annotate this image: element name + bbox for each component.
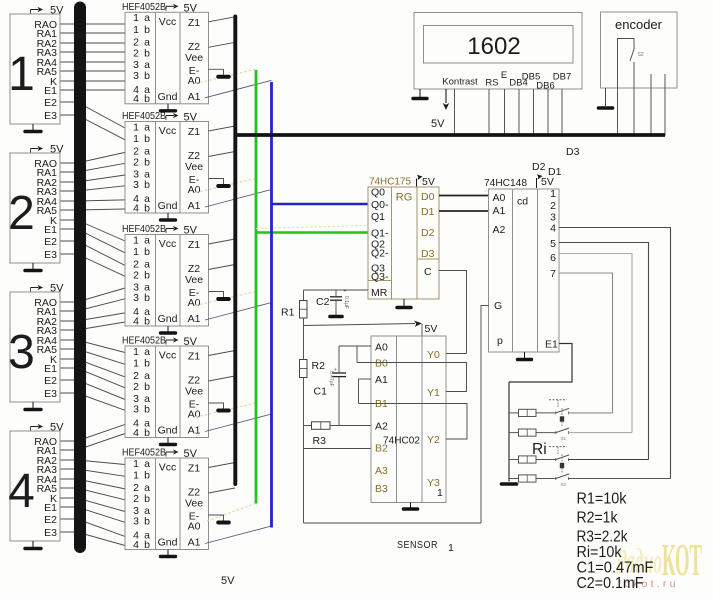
svg-text:b: b xyxy=(144,315,150,327)
svg-text:1602: 1602 xyxy=(467,33,520,60)
wire switch S1 output xyxy=(569,412,613,414)
U4 5V supply arrow xyxy=(166,337,179,344)
wire xyxy=(60,479,125,489)
svg-text:1: 1 xyxy=(437,487,443,499)
U1 5V supply arrow xyxy=(166,4,179,11)
svg-text:5V: 5V xyxy=(425,323,438,335)
switch S1 xyxy=(556,408,569,413)
svg-text:a: a xyxy=(144,121,150,133)
wire switch S2 output xyxy=(569,432,633,434)
wire xyxy=(60,288,125,302)
svg-text:Vee: Vee xyxy=(185,52,203,64)
svg-text:5V: 5V xyxy=(50,422,64,434)
wire xyxy=(60,254,125,276)
connector block 2 xyxy=(10,153,60,263)
wire encoder pin B xyxy=(633,88,635,136)
svg-text:2: 2 xyxy=(8,187,35,240)
svg-text:4: 4 xyxy=(133,202,139,214)
connector 1 5V supply arrow xyxy=(31,7,44,14)
svg-text:6: 6 xyxy=(550,252,556,264)
svg-text:a: a xyxy=(144,346,150,358)
svg-text:E: E xyxy=(501,70,507,81)
U2 Z1 wire xyxy=(209,126,236,131)
svg-text:1: 1 xyxy=(133,358,139,370)
svg-text:A1: A1 xyxy=(188,313,201,325)
U2 A0 wire xyxy=(196,179,256,193)
wire output 6 xyxy=(559,254,632,433)
svg-text:MR: MR xyxy=(371,287,388,299)
wire D0 to A0 xyxy=(439,195,489,197)
svg-text:C1=0.47mF: C1=0.47mF xyxy=(577,560,654,577)
svg-text:D0: D0 xyxy=(421,191,435,203)
svg-text:Gnd: Gnd xyxy=(158,91,178,103)
U1 Z1 wire xyxy=(209,17,236,22)
connector block 3 xyxy=(10,292,60,402)
svg-text:b: b xyxy=(144,358,150,370)
wire xyxy=(60,163,125,172)
wire xyxy=(60,498,125,512)
sensor 5V arrow xyxy=(414,321,422,327)
multiplexer U1 HEF4052B xyxy=(125,12,209,104)
wire xyxy=(60,186,125,191)
wire left rail lower xyxy=(303,378,305,524)
wire xyxy=(60,51,125,53)
wire xyxy=(60,359,125,377)
svg-text:3: 3 xyxy=(133,404,139,416)
svg-text:R3=2.2k: R3=2.2k xyxy=(577,529,629,546)
svg-text:Y2: Y2 xyxy=(427,434,440,446)
svg-text:Vcc: Vcc xyxy=(159,16,177,28)
svg-text:b: b xyxy=(144,70,150,82)
svg-text:Vee: Vee xyxy=(185,161,203,173)
wire xyxy=(60,80,125,82)
svg-text:1: 1 xyxy=(448,542,454,554)
U4 E- wire xyxy=(209,403,224,409)
svg-text:C1: C1 xyxy=(314,386,328,398)
svg-text:b: b xyxy=(144,133,150,145)
wire xyxy=(60,220,125,241)
LCD ground xyxy=(413,97,427,100)
capacitor C1 xyxy=(332,372,346,374)
wire xyxy=(60,322,125,330)
wire C1 bottom xyxy=(338,377,340,426)
pushbutton link 1 xyxy=(560,416,564,421)
svg-text:A2: A2 xyxy=(493,224,506,236)
svg-text:C: C xyxy=(424,266,432,278)
svg-text:R1=10k: R1=10k xyxy=(577,491,628,508)
svg-text:Z1: Z1 xyxy=(188,17,200,29)
wire encoder pin A xyxy=(617,88,619,136)
svg-text:RG: RG xyxy=(396,192,413,204)
svg-text:Vcc: Vcc xyxy=(159,462,177,474)
resistor Ri3 xyxy=(509,459,519,461)
svg-text:A0: A0 xyxy=(188,521,201,533)
wire C1 top node xyxy=(338,346,340,372)
switch S3 xyxy=(556,455,569,460)
connector 2 ground xyxy=(32,263,34,269)
C2 ground xyxy=(330,315,342,319)
wire xyxy=(60,102,125,128)
wire LCD pin xyxy=(518,89,520,136)
U3 A0 wire xyxy=(196,292,256,306)
U7 5V arrow xyxy=(537,174,543,188)
svg-text:B0: B0 xyxy=(375,358,388,370)
wire encoder pin C xyxy=(650,74,652,136)
svg-text:A1: A1 xyxy=(188,200,201,212)
wire B2 xyxy=(304,448,372,450)
wire xyxy=(60,488,125,500)
svg-text:A2: A2 xyxy=(375,421,388,433)
svg-text:R2=1k: R2=1k xyxy=(577,510,619,527)
svg-text:Ri: Ri xyxy=(532,441,547,458)
svg-text:Vcc: Vcc xyxy=(159,125,177,137)
svg-text:5: 5 xyxy=(550,238,556,250)
wire xyxy=(60,340,125,353)
svg-text:1: 1 xyxy=(133,458,139,470)
svg-text:E2: E2 xyxy=(44,514,57,526)
wire MR to R1 xyxy=(304,289,369,291)
svg-text:Vcc: Vcc xyxy=(159,350,177,362)
wire Y0 to clock xyxy=(446,353,467,355)
svg-text:3: 3 xyxy=(133,292,139,304)
svg-text:5V: 5V xyxy=(422,176,435,188)
svg-text:7: 7 xyxy=(550,268,556,280)
svg-text:A0: A0 xyxy=(493,192,506,204)
svg-text:D2: D2 xyxy=(421,227,435,239)
svg-text:p: p xyxy=(497,335,503,347)
U5 Gnd wire xyxy=(167,550,169,556)
svg-text:3: 3 xyxy=(133,516,139,528)
svg-text:4: 4 xyxy=(133,93,139,105)
svg-text:E3: E3 xyxy=(44,388,57,400)
wire xyxy=(60,393,125,410)
svg-text:3: 3 xyxy=(133,179,139,191)
U7 ground xyxy=(518,358,532,361)
svg-text:Q1: Q1 xyxy=(371,211,385,223)
wire switch S4 output xyxy=(569,478,671,480)
svg-text:5V: 5V xyxy=(221,575,235,587)
U3 Gnd wire xyxy=(167,326,169,332)
svg-text:DB7: DB7 xyxy=(553,72,571,83)
svg-text:5V: 5V xyxy=(541,176,554,188)
svg-text:+: + xyxy=(334,367,337,373)
wire C clock from Y0 xyxy=(439,271,467,354)
svg-text:b: b xyxy=(144,246,150,258)
U1 Gnd wire xyxy=(167,104,169,110)
svg-text:Vee: Vee xyxy=(185,498,203,510)
wire output 5 xyxy=(559,243,649,460)
svg-text:2: 2 xyxy=(133,47,139,59)
U3 Z2 wire xyxy=(209,265,236,270)
resistor R3 xyxy=(312,422,331,430)
U6 5V arrow xyxy=(417,175,423,187)
svg-text:D3: D3 xyxy=(421,248,435,260)
U1 A0 wire xyxy=(196,69,256,83)
U2 Z2 wire xyxy=(209,152,236,157)
svg-text:Kontrast: Kontrast xyxy=(442,77,478,88)
svg-text:A1: A1 xyxy=(375,374,388,386)
connector 1 ground xyxy=(32,124,34,130)
svg-text:0.47μF: 0.47μF xyxy=(328,371,334,387)
U5 E- wire xyxy=(209,515,224,521)
svg-text:Z1: Z1 xyxy=(188,351,200,363)
switch S2 xyxy=(556,428,569,433)
svg-text:1: 1 xyxy=(550,188,556,200)
svg-text:Z1: Z1 xyxy=(188,463,200,475)
svg-text:E1: E1 xyxy=(44,363,57,375)
gate U8 74HC02 sensor xyxy=(371,336,446,503)
svg-text:Q3-: Q3- xyxy=(371,271,389,283)
multiplexer U3 HEF4052B xyxy=(125,235,209,327)
svg-text:2: 2 xyxy=(550,200,556,212)
U3 ground xyxy=(161,331,176,334)
wire xyxy=(60,519,125,536)
wire output 4 xyxy=(559,228,671,479)
U3 E- wire xyxy=(209,292,224,298)
U4 ground xyxy=(161,443,176,446)
svg-text:A1: A1 xyxy=(188,537,201,549)
svg-text:R1: R1 xyxy=(281,307,295,319)
svg-text:b: b xyxy=(144,470,150,482)
multiplexer U2 HEF4052B xyxy=(125,122,209,214)
svg-text:E2: E2 xyxy=(44,375,57,387)
wire B0 to Y1 xyxy=(357,363,467,392)
svg-text:SENSOR: SENSOR xyxy=(397,539,438,551)
U4 A1 wire xyxy=(205,414,272,432)
svg-text:Q0-: Q0- xyxy=(371,199,389,211)
svg-text:1: 1 xyxy=(133,246,139,258)
capacitor C2 xyxy=(330,296,342,298)
svg-text:encoder: encoder xyxy=(615,17,663,32)
svg-text:E1: E1 xyxy=(545,339,558,351)
svg-text:Ri=10k: Ri=10k xyxy=(577,544,623,561)
U5 Z1 wire xyxy=(209,463,236,468)
wire output 7 xyxy=(559,273,613,413)
bus D3 horizontal xyxy=(234,133,665,137)
svg-text:5V: 5V xyxy=(50,144,64,156)
wire R3 left xyxy=(304,425,312,427)
U5 A0 wire xyxy=(207,504,256,522)
svg-text:Q0: Q0 xyxy=(371,187,385,199)
svg-text:E1: E1 xyxy=(44,85,57,97)
svg-text:74HC148: 74HC148 xyxy=(484,177,527,189)
svg-text:RS: RS xyxy=(485,78,498,89)
watermark xyxy=(616,534,702,590)
svg-text:A0: A0 xyxy=(188,409,201,421)
svg-text:D1: D1 xyxy=(421,206,435,218)
encoder ground xyxy=(599,106,613,110)
U6 ground wire xyxy=(403,299,405,306)
svg-text:b: b xyxy=(144,381,150,393)
encoder ground wire xyxy=(605,88,607,106)
bus D3 vertical xyxy=(233,17,237,485)
svg-text:S2: S2 xyxy=(638,52,644,58)
net A1 blue wire to Q0- xyxy=(272,203,369,206)
svg-text:Vcc: Vcc xyxy=(159,238,177,250)
svg-text:1: 1 xyxy=(133,234,139,246)
U4 E- ground xyxy=(218,409,229,413)
wire encoder pin D xyxy=(664,74,666,136)
U1 Z2 wire xyxy=(209,42,236,47)
svg-text:+: + xyxy=(344,289,347,295)
LCD screen xyxy=(424,26,574,64)
wire LCD pin xyxy=(561,89,563,136)
U4 Z2 wire xyxy=(209,376,236,381)
svg-text:E1: E1 xyxy=(44,224,57,236)
wire xyxy=(60,469,125,476)
U4 A0 wire xyxy=(196,403,256,417)
encoder switch S2 xyxy=(618,39,635,89)
svg-text:b: b xyxy=(144,24,150,36)
net A0 green wire to Q1- xyxy=(256,231,368,234)
svg-text:1: 1 xyxy=(133,12,139,24)
svg-text:HEF4052B: HEF4052B xyxy=(122,1,166,13)
svg-text:1: 1 xyxy=(8,48,35,101)
svg-text:b: b xyxy=(144,270,150,282)
U5 Z2 wire xyxy=(209,488,236,493)
svg-text:cd: cd xyxy=(517,196,528,208)
wire xyxy=(60,507,125,522)
resistor Ri1 xyxy=(509,412,519,414)
wire switch S3 output xyxy=(569,459,649,461)
svg-text:0.1μF: 0.1μF xyxy=(343,296,349,309)
svg-text:Y0: Y0 xyxy=(427,349,440,361)
U5 E- ground xyxy=(218,521,229,525)
svg-text:b: b xyxy=(144,493,150,505)
svg-text:2: 2 xyxy=(133,270,139,282)
U3 Z1 wire xyxy=(209,239,236,244)
svg-text:4: 4 xyxy=(133,315,139,327)
svg-text:a: a xyxy=(144,234,150,246)
svg-text:Z1: Z1 xyxy=(188,126,200,138)
svg-text:b: b xyxy=(144,427,150,439)
U5 5V supply arrow xyxy=(166,449,179,456)
wire xyxy=(60,209,125,210)
svg-text:S2: S2 xyxy=(561,482,567,487)
svg-text:E3: E3 xyxy=(44,249,57,261)
svg-text:4: 4 xyxy=(133,427,139,439)
wire xyxy=(60,89,125,91)
svg-text:A0: A0 xyxy=(188,75,201,87)
svg-text:E3: E3 xyxy=(44,110,57,122)
wire xyxy=(60,424,125,441)
resistor R2 xyxy=(300,360,308,378)
wire xyxy=(60,42,125,44)
svg-text:D3: D3 xyxy=(566,146,580,158)
svg-text:R3: R3 xyxy=(313,435,327,447)
U1 E- ground xyxy=(218,75,229,79)
svg-text:C2: C2 xyxy=(316,296,330,308)
cable bus bar xyxy=(74,8,86,548)
svg-text:S1: S1 xyxy=(561,436,567,441)
svg-text:A1: A1 xyxy=(188,91,201,103)
pushbutton actuator 2 xyxy=(549,446,567,448)
wire xyxy=(60,241,125,265)
connector 4 ground xyxy=(32,541,34,547)
svg-text:b: b xyxy=(144,516,150,528)
pushbutton actuator 1 xyxy=(549,399,567,401)
svg-text:1: 1 xyxy=(133,470,139,482)
svg-text:b: b xyxy=(144,404,150,416)
wire xyxy=(60,460,125,465)
svg-text:2: 2 xyxy=(133,381,139,393)
wire 5V sensor xyxy=(304,324,416,326)
U5 ground xyxy=(161,555,176,558)
svg-text:B3: B3 xyxy=(375,483,388,495)
wire A0 xyxy=(339,345,371,347)
U2 E- wire xyxy=(209,179,224,185)
wire D1 to A1 xyxy=(439,210,489,212)
svg-text:D2: D2 xyxy=(532,161,546,173)
svg-text:Gnd: Gnd xyxy=(158,313,178,325)
connector 3 ground xyxy=(32,402,34,408)
U1 A1 wire xyxy=(205,80,272,98)
encoder box xyxy=(601,12,678,88)
wire xyxy=(60,380,125,400)
svg-text:74HC02: 74HC02 xyxy=(383,435,420,447)
wire G to sensor loop xyxy=(481,306,489,524)
wire xyxy=(60,434,125,451)
svg-text:Z1: Z1 xyxy=(188,239,200,251)
wire R3 to A2 xyxy=(330,425,371,427)
svg-text:5V: 5V xyxy=(431,118,445,130)
svg-text:E2: E2 xyxy=(44,236,57,248)
wire C2 bottom xyxy=(335,301,337,316)
svg-text:Gnd: Gnd xyxy=(158,425,178,437)
svg-text:a: a xyxy=(144,12,150,24)
register U6 74HC175 xyxy=(368,187,439,299)
LCD module 1602 xyxy=(414,13,582,90)
svg-text:2: 2 xyxy=(133,493,139,505)
U2 E- ground xyxy=(218,184,229,188)
svg-text:b: b xyxy=(144,93,150,105)
svg-text:4: 4 xyxy=(550,223,556,235)
svg-text:G: G xyxy=(494,300,502,312)
svg-text:b: b xyxy=(144,179,150,191)
U8 ground xyxy=(404,507,418,511)
svg-text:4: 4 xyxy=(133,539,139,551)
wire xyxy=(60,229,125,253)
connector 4 5V supply arrow xyxy=(31,424,44,431)
svg-text:Vee: Vee xyxy=(185,386,203,398)
svg-text:E2: E2 xyxy=(44,97,57,109)
wire xyxy=(60,349,125,364)
wire A0-B0 tie xyxy=(356,346,358,363)
wire Ri rail xyxy=(508,382,510,482)
U2 Gnd wire xyxy=(167,213,169,219)
LCD 5V arrow xyxy=(443,89,449,110)
wire xyxy=(60,61,125,63)
wire xyxy=(60,313,125,321)
connector 2 5V supply arrow xyxy=(31,146,44,153)
connector 3 5V supply arrow xyxy=(31,285,44,292)
svg-text:3: 3 xyxy=(133,70,139,82)
net A0 green vertical xyxy=(255,70,258,504)
svg-text:B1: B1 xyxy=(375,398,388,410)
svg-text:R2: R2 xyxy=(312,360,326,372)
svg-text:E3: E3 xyxy=(44,527,57,539)
U2 A1 wire xyxy=(205,190,272,208)
svg-text:A1: A1 xyxy=(493,205,506,217)
wire xyxy=(60,70,125,72)
svg-text:Gnd: Gnd xyxy=(158,200,178,212)
svg-text:3: 3 xyxy=(8,326,35,379)
svg-text:1: 1 xyxy=(133,121,139,133)
svg-text:1: 1 xyxy=(133,133,139,145)
svg-text:HEF4052B: HEF4052B xyxy=(122,447,166,459)
svg-text:Vee: Vee xyxy=(185,274,203,286)
svg-text:Q2-: Q2- xyxy=(371,248,389,260)
